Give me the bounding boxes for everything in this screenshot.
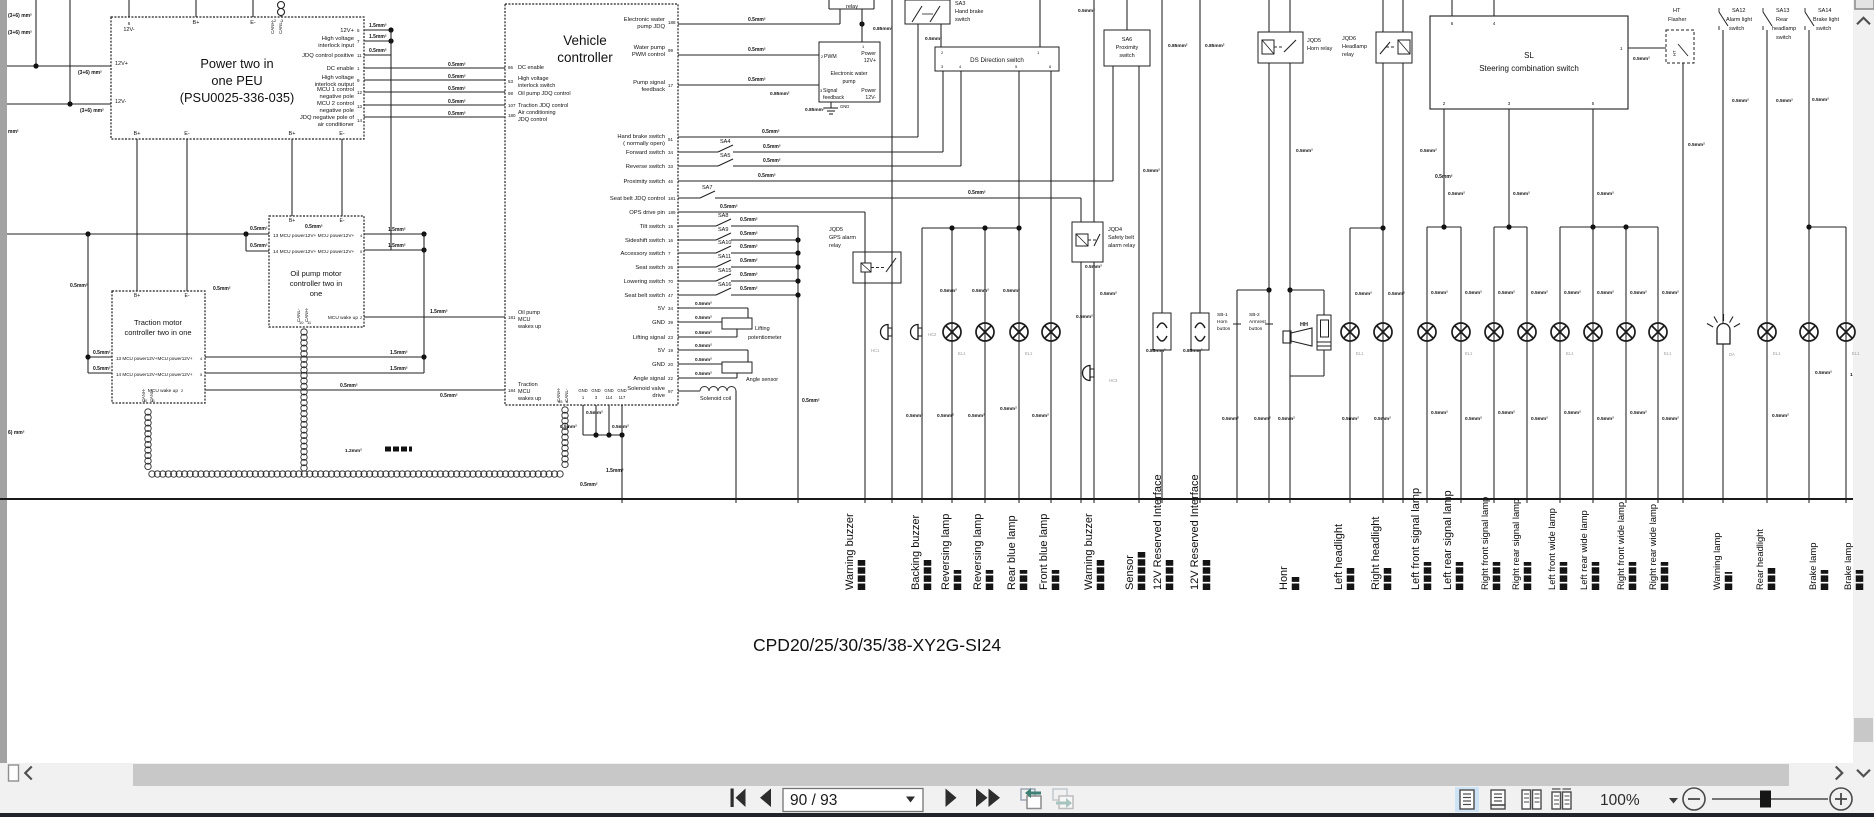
svg-text:6: 6: [1451, 21, 1454, 26]
svg-text:B+: B+: [289, 131, 296, 137]
svg-text:0.5mm²: 0.5mm²: [1531, 416, 1548, 422]
svg-text:SB-1: SB-1: [1217, 312, 1228, 318]
svg-text:Angle signal: Angle signal: [633, 376, 665, 382]
svg-text:23: 23: [668, 335, 674, 340]
svg-text:0.5mm²: 0.5mm²: [968, 413, 985, 419]
svg-text:0.5mm²: 0.5mm²: [1388, 291, 1405, 297]
svg-text:114: 114: [606, 395, 613, 400]
svg-text:0.5mm²: 0.5mm²: [1498, 410, 1515, 416]
svg-text:wakes up: wakes up: [517, 396, 541, 402]
svg-text:Signal: Signal: [823, 88, 837, 94]
svg-text:Traction JDQ control: Traction JDQ control: [518, 103, 568, 109]
svg-text:Right rear signal lamp: Right rear signal lamp: [1510, 499, 1521, 590]
svg-text:0.5mm²: 0.5mm²: [740, 231, 758, 237]
svg-text:1.5mm²: 1.5mm²: [390, 350, 408, 356]
svg-text:switch: switch: [1816, 26, 1831, 32]
svg-text:Rear headlight: Rear headlight: [1754, 529, 1765, 590]
svg-text:Reversing lamp: Reversing lamp: [972, 514, 984, 590]
svg-text:SA9: SA9: [718, 227, 728, 233]
svg-text:Power: Power: [861, 51, 876, 57]
svg-text:air conditioner: air conditioner: [318, 122, 354, 128]
svg-text:181: 181: [508, 315, 516, 320]
svg-text:Brake lamp: Brake lamp: [1842, 543, 1853, 590]
svg-text:Warning lamp: Warning lamp: [1711, 533, 1722, 591]
svg-text:0.5mm²: 0.5mm²: [1355, 291, 1372, 297]
svg-text:OPS drive pin: OPS drive pin: [629, 210, 665, 216]
svg-text:0.5mm²: 0.5mm²: [1431, 410, 1448, 416]
svg-text:12V+: 12V+: [115, 61, 128, 67]
svg-text:0.5mm²: 0.5mm²: [1564, 290, 1581, 296]
svg-text:10: 10: [299, 320, 304, 325]
svg-text:53: 53: [508, 79, 514, 84]
svg-text:90 / 93: 90 / 93: [790, 792, 837, 809]
svg-text:(3+6) mm²: (3+6) mm²: [78, 70, 102, 76]
svg-text:0.85mm²: 0.85mm²: [770, 91, 790, 97]
svg-text:0.5mm²: 0.5mm²: [906, 413, 923, 419]
svg-text:4: 4: [1493, 21, 1496, 26]
svg-text:Sideshift switch: Sideshift switch: [625, 238, 665, 244]
svg-text:B+: B+: [134, 131, 141, 137]
svg-text:17: 17: [668, 83, 674, 88]
svg-text:Headlamp: Headlamp: [1342, 44, 1367, 50]
svg-text:button: button: [1217, 326, 1231, 332]
svg-text:97: 97: [668, 389, 674, 394]
svg-text:4: 4: [959, 64, 962, 69]
svg-text:Electronic water: Electronic water: [831, 71, 868, 77]
svg-text:GND: GND: [591, 388, 600, 393]
svg-text:0.5mm²: 0.5mm²: [1296, 148, 1313, 154]
svg-text:0.5mm²: 0.5mm²: [1465, 290, 1482, 296]
svg-text:CPD20/25/30/35/38-XY2G-SI24: CPD20/25/30/35/38-XY2G-SI24: [753, 635, 1001, 655]
svg-text:0.5mm²: 0.5mm²: [250, 226, 268, 232]
svg-text:Left headlight: Left headlight: [1333, 524, 1345, 590]
svg-text:0.5mm²: 0.5mm²: [340, 383, 358, 389]
svg-text:HT: HT: [1673, 8, 1681, 14]
svg-text:0.5mm²: 0.5mm²: [1776, 98, 1793, 104]
svg-text:0.5mm²: 0.5mm²: [1465, 416, 1482, 422]
svg-text:DA: DA: [1729, 352, 1735, 357]
svg-text:(3+6) mm²: (3+6) mm²: [8, 30, 32, 36]
svg-text:0.5mm²: 0.5mm²: [560, 424, 577, 430]
svg-text:Oil pump motor: Oil pump motor: [290, 269, 342, 278]
svg-text:SA10: SA10: [718, 240, 731, 246]
svg-text:1.2mm²: 1.2mm²: [345, 448, 362, 454]
svg-text:Water pump: Water pump: [634, 45, 665, 51]
svg-text:E-: E-: [339, 131, 345, 137]
svg-text:5: 5: [1592, 101, 1595, 106]
svg-text:55: 55: [558, 399, 563, 404]
svg-text:14: 14: [357, 118, 363, 123]
svg-text:5: 5: [360, 249, 363, 254]
svg-text:JDQ control positive: JDQ control positive: [302, 53, 354, 59]
svg-text:SA6: SA6: [1122, 37, 1132, 43]
svg-text:Traction: Traction: [518, 382, 538, 388]
svg-text:3: 3: [281, 18, 284, 23]
svg-text:0.5mm²: 0.5mm²: [925, 36, 942, 42]
svg-text:Left front signal lamp: Left front signal lamp: [1410, 488, 1422, 590]
svg-text:Seat switch: Seat switch: [635, 265, 665, 271]
svg-text:0.5mm²: 0.5mm²: [1597, 191, 1614, 197]
svg-text:0.5mm²: 0.5mm²: [748, 47, 766, 53]
svg-text:1: 1: [1620, 46, 1623, 51]
svg-text:1.5mm²: 1.5mm²: [388, 243, 406, 249]
svg-text:11: 11: [151, 399, 155, 403]
svg-text:33: 33: [668, 164, 674, 169]
svg-text:MCU 2 control: MCU 2 control: [317, 101, 354, 107]
svg-text:0.5mm²: 0.5mm²: [763, 144, 781, 150]
svg-text:0.5mm²: 0.5mm²: [695, 330, 712, 336]
svg-text:0.5mm²: 0.5mm²: [1076, 314, 1093, 320]
svg-text:alarm relay: alarm relay: [1108, 243, 1135, 249]
svg-text:Pump signal: Pump signal: [633, 80, 665, 86]
svg-text:Alarm light: Alarm light: [1726, 17, 1752, 23]
svg-text:High voltage: High voltage: [322, 36, 354, 42]
svg-text:26: 26: [668, 265, 674, 270]
svg-text:99: 99: [668, 48, 674, 53]
svg-text:0.5mm²: 0.5mm²: [940, 288, 957, 294]
svg-text:1.5mm²: 1.5mm²: [606, 468, 624, 474]
svg-text:Safety belt: Safety belt: [1108, 235, 1134, 241]
svg-text:Right front signal lamp: Right front signal lamp: [1479, 497, 1490, 590]
svg-text:E-: E-: [340, 218, 345, 224]
svg-text:SA3: SA3: [955, 1, 965, 7]
svg-text:Left front wide lamp: Left front wide lamp: [1546, 508, 1557, 590]
svg-text:controller: controller: [557, 50, 613, 65]
svg-text:Honr: Honr: [1278, 566, 1290, 590]
svg-text:3: 3: [941, 64, 944, 69]
svg-text:PWM control: PWM control: [632, 52, 665, 58]
svg-text:34: 34: [668, 150, 674, 155]
svg-text:Power: Power: [861, 88, 876, 94]
svg-text:Tilt switch: Tilt switch: [640, 224, 665, 230]
svg-text:B+: B+: [193, 20, 200, 26]
svg-text:86: 86: [508, 65, 514, 70]
svg-text:Horn relay: Horn relay: [1307, 46, 1333, 52]
svg-text:0.85mm²: 0.85mm²: [1168, 43, 1188, 49]
svg-text:107: 107: [508, 103, 516, 108]
svg-text:0.5mm²: 0.5mm²: [580, 482, 598, 488]
svg-text:7: 7: [668, 251, 671, 256]
svg-text:GND: GND: [617, 388, 626, 393]
svg-text:GND: GND: [578, 388, 587, 393]
svg-text:pump JDQ: pump JDQ: [637, 24, 665, 30]
svg-text:Seat belt switch: Seat belt switch: [624, 293, 665, 299]
svg-text:wakes up: wakes up: [517, 324, 541, 330]
svg-text:0.85mm²: 0.85mm²: [1183, 348, 1203, 354]
svg-text:Forward switch: Forward switch: [626, 150, 665, 156]
svg-text:12V Reserved Interface: 12V Reserved Interface: [1152, 474, 1164, 590]
svg-text:headlamp: headlamp: [1772, 26, 1796, 32]
svg-text:1.5mm²: 1.5mm²: [369, 34, 387, 40]
svg-text:0.5mm²: 0.5mm²: [740, 217, 758, 223]
svg-text:0.5mm²: 0.5mm²: [1100, 291, 1117, 297]
svg-text:B+: B+: [134, 293, 140, 299]
svg-text:0.5mm²: 0.5mm²: [1254, 416, 1271, 422]
svg-text:0.5mm²: 0.5mm²: [1812, 97, 1829, 103]
svg-text:Vehicle: Vehicle: [563, 33, 607, 48]
svg-text:relay: relay: [846, 4, 858, 10]
svg-text:GPS alarm: GPS alarm: [829, 235, 856, 241]
svg-text:5: 5: [1015, 64, 1018, 69]
svg-text:MCU: MCU: [518, 317, 531, 323]
svg-text:SA14: SA14: [1818, 8, 1831, 14]
svg-text:0.5mm²: 0.5mm²: [213, 286, 231, 292]
svg-text:1.5mm²: 1.5mm²: [388, 227, 406, 233]
svg-text:14 MCU power12V+ MCU power12V: 14 MCU power12V+ MCU power12V+: [273, 249, 355, 255]
svg-text:Front blue lamp: Front blue lamp: [1038, 514, 1050, 590]
svg-text:0.5mm²: 0.5mm²: [448, 62, 466, 68]
svg-text:EL1: EL1: [958, 351, 966, 356]
svg-text:0.5mm²: 0.5mm²: [1000, 406, 1017, 412]
svg-text:6) mm²: 6) mm²: [8, 430, 25, 436]
svg-text:EL1: EL1: [1566, 351, 1574, 356]
svg-text:MCU wake up: MCU wake up: [328, 315, 358, 321]
svg-text:Reversing lamp: Reversing lamp: [940, 514, 952, 590]
svg-text:GND: GND: [652, 320, 665, 326]
svg-text:0.85mm²: 0.85mm²: [1205, 43, 1225, 49]
svg-text:0.5mm²: 0.5mm²: [762, 129, 780, 135]
svg-text:11: 11: [357, 53, 362, 58]
svg-text:SA15: SA15: [718, 268, 731, 274]
svg-text:EL1: EL1: [1664, 351, 1672, 356]
svg-text:relay: relay: [1342, 52, 1354, 58]
svg-text:Hand brake: Hand brake: [955, 9, 983, 15]
svg-text:PWM: PWM: [824, 54, 837, 60]
svg-text:20: 20: [668, 362, 674, 367]
svg-text:0.5mm²: 0.5mm²: [972, 288, 989, 294]
svg-text:one: one: [310, 289, 323, 298]
svg-text:Lowering switch: Lowering switch: [624, 279, 665, 285]
svg-text:4: 4: [200, 356, 203, 361]
svg-text:12V+: 12V+: [864, 58, 876, 64]
svg-text:34: 34: [668, 306, 674, 311]
svg-text:22: 22: [668, 376, 674, 381]
svg-text:0.5mm²: 0.5mm²: [440, 393, 458, 399]
svg-text:feedback: feedback: [641, 87, 665, 93]
svg-text:12V+: 12V+: [340, 28, 354, 34]
svg-text:relay: relay: [829, 243, 841, 249]
svg-text:MCU: MCU: [518, 389, 531, 395]
svg-text:14 MCU power12V+MCU power12V+: 14 MCU power12V+MCU power12V+: [116, 372, 193, 377]
svg-text:0.5mm²: 0.5mm²: [758, 173, 776, 179]
svg-text:0.5mm²: 0.5mm²: [1662, 416, 1679, 422]
svg-text:12V-: 12V-: [865, 95, 876, 101]
svg-text:0.5mm²: 0.5mm²: [968, 190, 986, 196]
svg-text:0.5mm²: 0.5mm²: [250, 243, 268, 249]
svg-text:12V Reserved Interface: 12V Reserved Interface: [1189, 474, 1201, 590]
svg-text:SA13: SA13: [1776, 8, 1789, 14]
svg-text:Solenoid coil: Solenoid coil: [700, 396, 731, 402]
svg-text:0.5mm²: 0.5mm²: [720, 204, 738, 210]
svg-text:High voltage: High voltage: [518, 76, 549, 82]
svg-text:0.5mm²: 0.5mm²: [1732, 98, 1749, 104]
svg-text:Brake lamp: Brake lamp: [1807, 543, 1818, 590]
svg-text:0.85mm²: 0.85mm²: [873, 26, 893, 32]
svg-text:Rear: Rear: [1776, 17, 1788, 23]
svg-text:( normally open): ( normally open): [623, 141, 665, 147]
svg-text:0.5mm²: 0.5mm²: [1630, 410, 1647, 416]
svg-text:2: 2: [274, 18, 277, 23]
svg-text:(3+6) mm²: (3+6) mm²: [80, 108, 104, 114]
svg-text:2: 2: [1443, 101, 1446, 106]
svg-text:0.5mm²: 0.5mm²: [93, 350, 111, 356]
svg-text:9: 9: [357, 78, 360, 83]
svg-text:1.5mm²: 1.5mm²: [430, 309, 448, 315]
svg-text:11: 11: [307, 320, 312, 325]
svg-text:0.5mm²: 0.5mm²: [586, 410, 603, 416]
svg-text:controller two in: controller two in: [290, 279, 343, 288]
svg-text:Right front wide lamp: Right front wide lamp: [1615, 502, 1626, 590]
svg-text:SA5: SA5: [720, 153, 730, 159]
svg-text:39: 39: [668, 320, 674, 325]
svg-text:10: 10: [143, 399, 147, 403]
svg-text:Accessory switch: Accessory switch: [621, 251, 665, 257]
svg-text:Lifting signal: Lifting signal: [633, 335, 665, 341]
svg-text:1: 1: [357, 66, 360, 71]
svg-text:DS Direction switch: DS Direction switch: [970, 57, 1024, 64]
svg-text:0.5mm²: 0.5mm²: [1597, 290, 1614, 296]
svg-text:0.5mm²: 0.5mm²: [748, 17, 766, 23]
svg-text:potentiometer: potentiometer: [748, 335, 782, 341]
svg-text:B+: B+: [289, 218, 295, 224]
svg-text:HH: HH: [1300, 322, 1308, 328]
svg-text:SA16: SA16: [718, 282, 731, 288]
svg-text:0.5mm²: 0.5mm²: [1143, 168, 1160, 174]
svg-text:13 MCU power12V+ MCU power12V: 13 MCU power12V+ MCU power12V+: [273, 233, 355, 239]
svg-text:HC2: HC2: [928, 332, 937, 337]
svg-text:46: 46: [668, 179, 674, 184]
svg-text:Solenoid valve: Solenoid valve: [627, 386, 665, 392]
svg-text:Brake light: Brake light: [1813, 17, 1839, 23]
svg-text:Seat belt JDQ control: Seat belt JDQ control: [610, 196, 665, 202]
svg-text:Right rear wide lamp: Right rear wide lamp: [1647, 504, 1658, 590]
svg-text:SA7: SA7: [702, 185, 712, 191]
svg-text:High voltage: High voltage: [322, 75, 354, 81]
svg-text:E-: E-: [185, 293, 190, 299]
svg-text:100%: 100%: [1600, 792, 1640, 809]
svg-text:switch: switch: [1729, 26, 1744, 32]
svg-text:GND: GND: [840, 104, 849, 109]
svg-text:0.5mm²: 0.5mm²: [1564, 410, 1581, 416]
svg-text:drive: drive: [652, 393, 665, 399]
svg-text:0.5mm²: 0.5mm²: [1633, 56, 1650, 62]
svg-text:mm²: mm²: [8, 129, 19, 135]
svg-text:0.5mm²: 0.5mm²: [1085, 264, 1102, 270]
svg-text:Traction motor: Traction motor: [134, 318, 183, 327]
svg-text:0.5mm²: 0.5mm²: [1815, 370, 1832, 376]
svg-text:0.5mm²: 0.5mm²: [802, 398, 820, 404]
svg-text:1.5mm²: 1.5mm²: [369, 23, 387, 29]
svg-text:7: 7: [357, 39, 360, 44]
svg-text:GND: GND: [652, 362, 665, 368]
svg-text:JQD5: JQD5: [829, 227, 843, 233]
svg-text:51: 51: [668, 137, 674, 142]
svg-text:0.5mm²: 0.5mm²: [740, 258, 758, 264]
svg-text:Right headlight: Right headlight: [1370, 517, 1382, 590]
svg-text:2: 2: [941, 50, 944, 55]
svg-text:HT: HT: [1672, 50, 1677, 56]
svg-text:0.5mm²: 0.5mm²: [1420, 148, 1437, 154]
svg-text:EL1: EL1: [1356, 351, 1364, 356]
svg-text:1: 1: [1037, 50, 1040, 55]
svg-text:JDQ negative pole of: JDQ negative pole of: [300, 115, 355, 121]
svg-text:19: 19: [668, 348, 674, 353]
svg-text:JQD4: JQD4: [1108, 227, 1122, 233]
svg-text:0.85mm²: 0.85mm²: [805, 107, 825, 113]
svg-text:0.5mm²: 0.5mm²: [1222, 416, 1239, 422]
svg-text:switch: switch: [955, 17, 970, 23]
svg-text:Lifting: Lifting: [755, 326, 770, 332]
svg-text:98: 98: [508, 91, 514, 96]
svg-text:189: 189: [668, 210, 676, 215]
svg-text:DC enable: DC enable: [518, 65, 544, 71]
svg-text:JDQ control: JDQ control: [518, 117, 547, 123]
svg-text:controller two in one: controller two in one: [124, 328, 191, 337]
svg-text:Flasher: Flasher: [1668, 17, 1687, 23]
svg-text:Warning buzzer: Warning buzzer: [1083, 513, 1095, 590]
svg-text:6: 6: [1049, 64, 1052, 69]
svg-text:Air conditioning: Air conditioning: [518, 110, 556, 116]
svg-text:0.5mm²: 0.5mm²: [763, 158, 781, 164]
svg-text:MCU 1 control: MCU 1 control: [317, 87, 354, 93]
svg-text:SA4: SA4: [720, 139, 730, 145]
svg-text:0.5mm²: 0.5mm²: [740, 272, 758, 278]
svg-text:Steering combination switch: Steering combination switch: [1479, 64, 1579, 73]
svg-text:0.5mm²: 0.5mm²: [1688, 142, 1705, 148]
svg-text:Backing buzzer: Backing buzzer: [910, 514, 922, 590]
svg-text:EL1: EL1: [1025, 351, 1033, 356]
svg-text:0.5mm²: 0.5mm²: [695, 315, 712, 321]
svg-text:0.85mm²: 0.85mm²: [1146, 348, 1166, 354]
svg-text:EL1: EL1: [1465, 351, 1473, 356]
svg-text:0.5mm²: 0.5mm²: [1431, 290, 1448, 296]
svg-text:0.5mm²: 0.5mm²: [695, 371, 712, 377]
svg-text:12: 12: [357, 90, 363, 95]
svg-text:pump: pump: [843, 79, 856, 85]
svg-text:(PSU0025-336-035): (PSU0025-336-035): [180, 90, 295, 105]
svg-text:feedback: feedback: [823, 95, 844, 101]
svg-text:13 MCU power12V+MCU power12V+: 13 MCU power12V+MCU power12V+: [116, 356, 193, 361]
svg-text:70: 70: [668, 279, 674, 284]
svg-text:GND: GND: [604, 388, 613, 393]
svg-text:16: 16: [668, 238, 674, 243]
svg-text:0.5mm²: 0.5mm²: [1531, 290, 1548, 296]
svg-text:SB-2: SB-2: [1249, 312, 1260, 318]
svg-text:0.5mm²: 0.5mm²: [1003, 288, 1020, 294]
svg-text:EL1: EL1: [1852, 351, 1860, 356]
svg-text:E-: E-: [250, 20, 256, 26]
svg-text:negative pole: negative pole: [320, 108, 355, 114]
svg-text:interlock switch: interlock switch: [518, 83, 555, 89]
svg-text:SL: SL: [1524, 51, 1534, 60]
svg-text:0.5mm²: 0.5mm²: [748, 77, 766, 83]
svg-text:EL1: EL1: [1773, 351, 1781, 356]
svg-text:6: 6: [128, 21, 131, 26]
svg-text:0.5mm²: 0.5mm²: [369, 48, 387, 54]
svg-text:Angle sensor: Angle sensor: [746, 377, 778, 383]
svg-text:117: 117: [619, 395, 626, 400]
svg-text:1.5mm²: 1.5mm²: [390, 366, 408, 372]
svg-text:0.5mm²: 0.5mm²: [1513, 191, 1530, 197]
svg-text:1: 1: [862, 44, 865, 49]
svg-text:0.5mm²: 0.5mm²: [1278, 416, 1295, 422]
svg-text:15: 15: [668, 224, 674, 229]
svg-text:0.5mm²: 0.5mm²: [305, 224, 323, 230]
svg-text:0.5mm²: 0.5mm²: [448, 86, 466, 92]
svg-text:0.5mm²: 0.5mm²: [1342, 416, 1359, 422]
svg-text:0.5mm²: 0.5mm²: [1498, 290, 1515, 296]
svg-text:188: 188: [668, 20, 676, 25]
